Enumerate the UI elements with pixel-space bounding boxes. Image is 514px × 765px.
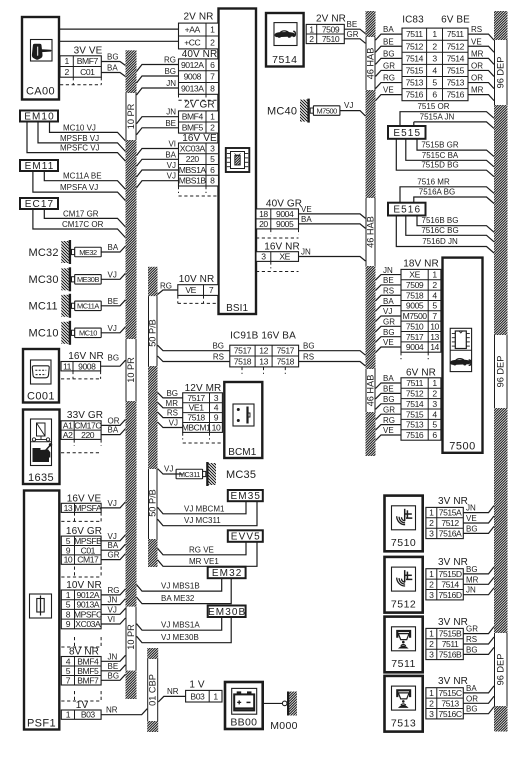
svg-text:NR: NR <box>167 687 179 696</box>
svg-text:VJ: VJ <box>169 419 178 428</box>
wire VE1 MR to EVV5 <box>158 542 258 567</box>
svg-text:1: 1 <box>432 270 437 280</box>
wire MC11A BE <box>44 171 125 189</box>
svg-text:BA: BA <box>107 64 118 73</box>
svg-text:96 DEP: 96 DEP <box>496 57 506 89</box>
svg-text:CM17: CM17 <box>77 555 99 565</box>
svg-text:5: 5 <box>210 154 215 164</box>
svg-text:GR: GR <box>466 625 478 634</box>
svg-text:11: 11 <box>63 361 72 371</box>
svg-text:7515D: 7515D <box>439 569 462 579</box>
wire VE RG to EVV5 <box>158 542 247 555</box>
svg-text:01 CBP: 01 CBP <box>148 674 158 706</box>
wire GR from bundle 46 HAB to IC83 pin 4 <box>376 61 403 76</box>
svg-text:MBCM1: MBCM1 <box>182 423 211 433</box>
wire 7514 MR to bundle 96 DEP <box>463 575 494 584</box>
connector 16V VE on BSI1 <box>179 133 219 196</box>
svg-text:50 P/B: 50 P/B <box>148 489 158 517</box>
wire 7518 RS from bundle 50 P/B <box>158 353 230 362</box>
wire OR from IC83 pin 4 to bundle 96 DEP <box>468 61 494 76</box>
svg-text:7516D JN: 7516D JN <box>422 237 458 246</box>
wire OR from IC83 pin 5 to bundle 96 DEP <box>468 74 494 89</box>
svg-text:9012A: 9012A <box>76 590 99 600</box>
svg-text:7515: 7515 <box>447 66 465 76</box>
svg-text:7513: 7513 <box>406 78 424 88</box>
svg-text:BG: BG <box>108 353 120 362</box>
svg-text:7512: 7512 <box>406 388 424 398</box>
svg-text:GR: GR <box>383 318 395 327</box>
node EM11 <box>20 160 58 172</box>
svg-text:7515A: 7515A <box>439 508 462 518</box>
svg-text:4: 4 <box>66 656 71 666</box>
svg-text:7515: 7515 <box>406 409 424 419</box>
wire 9008 BG from bundle 10 PR <box>137 67 179 83</box>
svg-text:JN: JN <box>466 586 476 595</box>
wire BA from bundle 46 HAB to 18V NR pin <box>376 297 402 311</box>
wire 7516A BG to bundle 96 DEP <box>463 524 494 533</box>
svg-text:2: 2 <box>429 579 434 589</box>
svg-text:12: 12 <box>259 346 268 356</box>
svg-text:33V GR: 33V GR <box>67 410 103 421</box>
svg-text:10 PR: 10 PR <box>126 357 136 383</box>
svg-text:1 V: 1 V <box>189 680 205 691</box>
svg-text:BG: BG <box>107 53 119 62</box>
wire MC10 VJ to bundle 10 PR <box>101 324 126 333</box>
wire XC03A VI to bundle 10 PR <box>101 615 125 624</box>
wire 9012A RG to bundle 10 PR <box>101 586 125 595</box>
wire BE from bundle 46 HAB to IC83 pin 2 <box>376 37 403 52</box>
svg-text:7515B GR: 7515B GR <box>421 141 459 150</box>
svg-text:XE: XE <box>409 270 420 280</box>
svg-text:RG: RG <box>160 282 172 291</box>
ground M000 <box>263 692 298 733</box>
connector IC91B 16V BA below BSI1 <box>230 330 299 374</box>
svg-text:2: 2 <box>432 388 437 398</box>
connector 3V NR on 7513 <box>426 676 468 719</box>
svg-text:2: 2 <box>429 698 434 708</box>
wire 7512 VE to bundle 96 DEP <box>463 514 494 523</box>
svg-text:XE: XE <box>279 252 290 262</box>
svg-text:1: 1 <box>432 29 437 39</box>
svg-text:BG: BG <box>303 342 315 351</box>
svg-text:OR: OR <box>471 61 483 70</box>
svg-text:BG: BG <box>383 395 395 404</box>
svg-text:RS: RS <box>466 635 477 644</box>
svg-text:3: 3 <box>429 590 434 600</box>
svg-text:MC30: MC30 <box>29 274 59 286</box>
svg-text:13: 13 <box>259 357 268 367</box>
svg-text:7: 7 <box>209 285 214 295</box>
svg-text:4: 4 <box>432 66 437 76</box>
svg-text:BMF7: BMF7 <box>77 675 99 685</box>
svg-text:C01: C01 <box>80 67 95 77</box>
svg-text:46 HAB: 46 HAB <box>365 375 375 407</box>
wire 7515D BG <box>396 139 494 177</box>
wire 7516D JN to bundle 96 DEP <box>463 586 494 595</box>
wire ME30B VJ to EM30B <box>137 617 232 643</box>
svg-text:M7500: M7500 <box>403 311 428 321</box>
svg-text:7516 MR: 7516 MR <box>417 177 450 186</box>
wire MBS1A VJ to EM30B <box>137 617 222 630</box>
wire CM17C OR to bundle 10 PR <box>101 416 125 425</box>
svg-text:BG: BG <box>164 67 176 76</box>
bundle 10 PR <box>126 50 137 699</box>
wire 7509 BE to bundle 46 HAB <box>344 20 365 34</box>
svg-text:BG: BG <box>466 565 478 574</box>
svg-text:RS: RS <box>167 409 178 418</box>
svg-text:VJ: VJ <box>344 101 353 110</box>
svg-text:5: 5 <box>432 420 437 430</box>
svg-text:7515D BG: 7515D BG <box>421 161 458 170</box>
svg-text:8: 8 <box>66 609 71 619</box>
svg-text:7513: 7513 <box>447 78 465 88</box>
wire +CC <box>59 40 179 42</box>
wire MR from IC83 pin 3 to bundle 96 DEP <box>468 49 494 64</box>
svg-text:VJ MBCM1: VJ MBCM1 <box>184 504 225 513</box>
wire RG from bundle 46 HAB to IC83 pin 5 <box>376 74 403 89</box>
component 7514 anti-theft warning <box>266 13 304 67</box>
connector 3V VE on CA00 <box>60 46 103 85</box>
svg-text:7512: 7512 <box>441 518 459 528</box>
wire NR from bundle 01 CBP to BB00 <box>158 687 185 702</box>
svg-text:+AA: +AA <box>185 25 201 35</box>
wire 7517 BG to bundle 46 HAB <box>299 342 366 356</box>
svg-text:MR VE1: MR VE1 <box>189 557 219 566</box>
svg-text:7510: 7510 <box>406 321 424 331</box>
connector 33V GR on 1635 <box>61 410 103 453</box>
wire 7515B GR to bundle 96 DEP <box>463 625 494 634</box>
svg-text:IC91B 16V BA: IC91B 16V BA <box>230 330 296 341</box>
svg-text:EM30B: EM30B <box>208 607 246 618</box>
svg-text:1: 1 <box>429 569 434 579</box>
svg-text:2: 2 <box>210 38 215 48</box>
wire 7515B GR <box>417 139 494 157</box>
svg-text:M7500: M7500 <box>316 106 337 115</box>
svg-text:VJ: VJ <box>164 465 173 474</box>
component 7500 radio <box>443 258 483 453</box>
wire BMF5 BE from bundle 10 PR <box>137 119 179 135</box>
connector 1V on PSF1 <box>61 691 101 720</box>
svg-text:5: 5 <box>66 600 71 610</box>
svg-text:1: 1 <box>429 629 434 639</box>
svg-text:RS: RS <box>471 25 482 34</box>
svg-text:RG: RG <box>383 416 395 425</box>
svg-text:BMF5: BMF5 <box>182 123 204 133</box>
svg-text:BA: BA <box>383 297 394 306</box>
connector 2V NR on BSI1 (top) <box>179 12 219 49</box>
svg-text:E516: E516 <box>393 205 421 216</box>
wire ME32 BA to bundle 10 PR <box>101 243 126 252</box>
node EM10 <box>20 111 58 123</box>
ground MC10 <box>29 321 102 345</box>
wire MPSFC VJ to bundle 10 PR <box>101 605 125 614</box>
svg-text:VJ: VJ <box>108 499 117 508</box>
wire 7513 OR to bundle 96 DEP <box>463 694 494 703</box>
svg-text:220: 220 <box>186 154 200 164</box>
svg-text:VE: VE <box>383 338 394 347</box>
svg-text:3: 3 <box>214 393 219 403</box>
svg-text:BE: BE <box>108 662 119 671</box>
wire VE RG from bundle 50 P/B <box>158 282 178 295</box>
svg-text:EM32: EM32 <box>212 568 243 579</box>
svg-text:7516: 7516 <box>447 90 465 100</box>
svg-text:7510: 7510 <box>391 537 416 549</box>
svg-text:10: 10 <box>64 555 73 565</box>
wire VE from bundle 46 HAB to 18V NR pin <box>376 338 402 352</box>
svg-text:CA00: CA00 <box>26 86 55 98</box>
wire 7516B BG <box>417 216 494 233</box>
wire 7515 OR <box>400 102 494 126</box>
svg-text:BG: BG <box>383 328 395 337</box>
wire BMF7 BG to bundle 10 PR <box>101 671 125 680</box>
wire 7515C BA <box>406 139 494 167</box>
component 7513 loudspeaker <box>385 676 423 732</box>
svg-text:3: 3 <box>432 53 437 63</box>
svg-text:RG: RG <box>108 586 120 595</box>
svg-text:OR: OR <box>466 694 478 703</box>
svg-text:6V BE: 6V BE <box>441 14 470 25</box>
svg-text:VJ: VJ <box>108 324 117 333</box>
connector 6V NR on 7500 <box>401 368 441 441</box>
svg-text:3V NR: 3V NR <box>438 676 468 687</box>
svg-text:BMF4: BMF4 <box>77 656 99 666</box>
bundle 50 P/B <box>148 267 158 567</box>
svg-text:6: 6 <box>432 430 437 440</box>
wire MR from IC83 pin 6 to bundle 96 DEP <box>468 86 494 101</box>
svg-text:NR: NR <box>106 706 118 715</box>
svg-text:7: 7 <box>432 311 437 321</box>
svg-text:OR: OR <box>108 416 120 425</box>
svg-text:3V NR: 3V NR <box>438 617 468 628</box>
wire CM17 GR <box>44 209 125 227</box>
svg-text:JN: JN <box>301 248 311 257</box>
svg-text:BE: BE <box>165 119 176 128</box>
connector 3V NR on 7510 <box>426 496 468 539</box>
svg-text:JN: JN <box>166 79 176 88</box>
svg-text:BSI1: BSI1 <box>226 303 248 314</box>
svg-text:BG: BG <box>466 645 478 654</box>
ground MC11 <box>29 294 102 318</box>
wire 7517 BG from bundle 50 P/B <box>158 342 230 351</box>
svg-text:1: 1 <box>66 590 71 600</box>
svg-text:CM17 GR: CM17 GR <box>63 209 99 218</box>
svg-text:7517: 7517 <box>277 346 295 356</box>
svg-text:7512: 7512 <box>447 41 465 51</box>
svg-text:9004: 9004 <box>406 342 424 352</box>
wire MC311 VJ from bundle 50 P/B <box>158 465 183 475</box>
svg-text:6: 6 <box>210 60 215 70</box>
wire VJ from bundle 46 HAB to 18V NR pin <box>376 307 402 321</box>
svg-text:VE: VE <box>383 86 394 95</box>
svg-text:3: 3 <box>429 649 434 659</box>
wire 7515C BA to bundle 96 DEP <box>463 684 494 693</box>
wire MC10 VJ <box>50 122 126 142</box>
wire CM17 GR to bundle 10 PR <box>101 551 125 560</box>
svg-text:7518: 7518 <box>234 357 252 367</box>
svg-text:1: 1 <box>64 56 69 66</box>
svg-text:MPSFA VJ: MPSFA VJ <box>60 183 98 192</box>
connector IC83 6V BE <box>402 14 470 100</box>
svg-text:96 DEP: 96 DEP <box>496 654 506 686</box>
svg-text:4: 4 <box>432 290 437 300</box>
svg-text:18V NR: 18V NR <box>403 258 439 269</box>
svg-text:MC10 VJ: MC10 VJ <box>63 123 96 132</box>
svg-text:7515B: 7515B <box>439 629 462 639</box>
connector 16V GR on PSF1 <box>61 526 102 565</box>
component BCM1 <box>224 382 262 458</box>
svg-text:7515C: 7515C <box>439 688 462 698</box>
svg-text:MPSFA: MPSFA <box>74 503 102 513</box>
svg-text:MC35: MC35 <box>226 469 256 481</box>
svg-text:6: 6 <box>210 165 215 175</box>
wire 9012A RG from bundle 10 PR <box>137 56 179 72</box>
component 1635 alarm siren <box>23 410 60 485</box>
svg-text:7515 OR: 7515 OR <box>417 102 449 111</box>
node E516 <box>388 203 426 216</box>
svg-text:BA: BA <box>165 150 176 159</box>
svg-text:OR: OR <box>471 74 483 83</box>
svg-text:BE: BE <box>383 385 394 394</box>
svg-text:8: 8 <box>210 176 215 186</box>
wire 7518 RS to bundle 46 HAB <box>299 353 366 367</box>
connector 16V NR on C001 <box>61 351 104 379</box>
wire 7516 MR <box>400 177 494 202</box>
connector 2V GR on BSI1 <box>179 100 219 133</box>
svg-text:EM11: EM11 <box>25 161 55 172</box>
connector 8V NR on PSF1 <box>61 637 101 685</box>
svg-text:PSF1: PSF1 <box>27 718 56 730</box>
svg-text:VE: VE <box>383 426 394 435</box>
svg-text:B03: B03 <box>81 710 96 720</box>
connector 10V NR on PSF1 <box>61 567 102 630</box>
wire B03 NR to bundle 01 CBP <box>101 706 147 715</box>
wire 7516C BG to bundle 96 DEP <box>463 705 494 714</box>
svg-text:46 HAB: 46 HAB <box>365 48 375 80</box>
ground MC30 <box>29 267 102 291</box>
svg-text:40V NR: 40V NR <box>182 49 218 60</box>
svg-text:1: 1 <box>210 25 215 35</box>
svg-text:MC11A BE: MC11A BE <box>63 172 102 181</box>
wire RS from IC83 pin 1 to bundle 96 DEP <box>468 25 494 40</box>
svg-text:VJ MBS1B: VJ MBS1B <box>161 582 200 591</box>
wire BMF4 JN from bundle 10 PR <box>137 108 179 124</box>
svg-text:EVV5: EVV5 <box>231 532 261 543</box>
svg-text:A2: A2 <box>63 430 73 440</box>
ground MC40 <box>267 99 340 123</box>
svg-text:5: 5 <box>432 78 437 88</box>
svg-text:BB00: BB00 <box>230 717 257 729</box>
svg-text:MC10: MC10 <box>29 328 59 340</box>
wire MPSFA VJ to bundle 10 PR <box>101 499 125 508</box>
svg-text:10 PR: 10 PR <box>126 103 136 129</box>
wire BA from bundle 46 HAB to IC83 pin 1 <box>376 25 403 40</box>
svg-text:9004: 9004 <box>276 209 294 219</box>
svg-text:M000: M000 <box>270 720 297 732</box>
svg-text:EC17: EC17 <box>25 199 54 210</box>
svg-text:VJ MC311: VJ MC311 <box>184 516 221 525</box>
svg-text:9013A: 9013A <box>181 83 204 93</box>
wire MBS1B VJ to EM32 <box>137 578 222 591</box>
svg-text:7516C: 7516C <box>439 709 462 719</box>
svg-text:4: 4 <box>214 403 219 413</box>
wire 7516A BG <box>414 188 494 204</box>
svg-text:7514: 7514 <box>406 53 424 63</box>
svg-text:7511: 7511 <box>391 658 416 670</box>
node E515 <box>388 126 426 139</box>
svg-text:18: 18 <box>259 209 268 219</box>
svg-text:VE1: VE1 <box>189 403 205 413</box>
svg-text:MR: MR <box>471 86 484 95</box>
svg-text:96 DEP: 96 DEP <box>496 356 506 388</box>
svg-text:1: 1 <box>66 710 71 720</box>
svg-text:BG: BG <box>466 524 478 533</box>
wire 220 BA to bundle 10 PR <box>101 426 125 435</box>
svg-text:9: 9 <box>66 619 71 629</box>
svg-text:3: 3 <box>261 252 266 262</box>
wire MPSFB VJ to bundle 10 PR <box>101 532 125 541</box>
svg-text:VJ ME30B: VJ ME30B <box>161 633 199 642</box>
svg-text:220: 220 <box>81 430 95 440</box>
svg-text:JN: JN <box>166 108 176 117</box>
svg-text:JN: JN <box>108 596 118 605</box>
wire +AA <box>59 28 179 30</box>
svg-text:2: 2 <box>429 518 434 528</box>
svg-text:BMF5: BMF5 <box>77 666 99 676</box>
svg-text:7516: 7516 <box>406 430 424 440</box>
svg-text:9008: 9008 <box>184 72 202 82</box>
wire BE from bundle 46 HAB to 6V NR pin <box>376 385 402 399</box>
svg-text:7509: 7509 <box>322 24 340 34</box>
svg-text:6: 6 <box>432 90 437 100</box>
connector 16V VE on PSF1 <box>61 493 102 521</box>
wire JN from bundle 46 HAB to 18V NR pin <box>376 266 402 280</box>
wire BMF5 BE to bundle 10 PR <box>101 662 125 671</box>
svg-text:BMF4: BMF4 <box>182 112 204 122</box>
wire 7516D JN <box>396 216 494 254</box>
wire C01 BA to bundle 10 PR <box>101 541 125 550</box>
svg-text:GR: GR <box>383 61 395 70</box>
wire VE from IC83 pin 2 to bundle 96 DEP <box>468 37 494 52</box>
svg-text:1: 1 <box>210 112 215 122</box>
svg-text:9012A: 9012A <box>181 60 204 70</box>
wire MPSFC VJ <box>27 122 126 162</box>
wire XE JN to bundle 46 HAB <box>299 248 366 262</box>
wire 7517 BG from bundle 50 P/B <box>158 389 183 398</box>
svg-text:13: 13 <box>64 503 73 513</box>
wire MBS1A VJ from bundle 10 PR <box>137 161 179 177</box>
component PSF1 engine fusebox <box>24 491 59 730</box>
svg-text:1: 1 <box>309 24 314 34</box>
component CA00 ignition switch <box>22 17 59 100</box>
svg-text:GR: GR <box>108 551 120 560</box>
svg-text:BA: BA <box>108 426 119 435</box>
svg-text:7500: 7500 <box>449 441 475 453</box>
svg-text:AUTO: AUTO <box>34 457 48 463</box>
component 7512 loudspeaker <box>385 557 423 613</box>
svg-text:7514: 7514 <box>441 579 459 589</box>
component 7510 loudspeaker <box>385 496 423 552</box>
wire BG from bundle 46 HAB to 6V NR pin <box>376 395 402 409</box>
wire MBCM1 VJ from bundle 50 P/B <box>158 419 183 428</box>
svg-text:10: 10 <box>212 423 221 433</box>
svg-text:JN: JN <box>108 652 118 661</box>
svg-text:8: 8 <box>210 83 215 93</box>
component BSI1 built-in systems interface <box>219 9 257 315</box>
svg-text:7514: 7514 <box>272 54 297 66</box>
svg-text:14: 14 <box>430 342 439 352</box>
svg-text:C001: C001 <box>27 391 55 403</box>
svg-text:9: 9 <box>214 413 219 423</box>
